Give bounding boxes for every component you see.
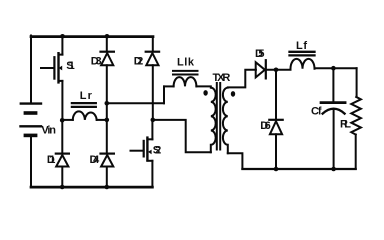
svg-text:Lr: Lr <box>80 90 93 102</box>
svg-text:Cf: Cf <box>311 106 322 118</box>
svg-text:TXR: TXR <box>213 72 231 84</box>
svg-text:D6: D6 <box>260 120 271 132</box>
svg-text:D5: D5 <box>255 48 265 60</box>
svg-text:Vin: Vin <box>41 125 56 137</box>
svg-text:D3: D3 <box>91 55 102 67</box>
svg-text:Lf: Lf <box>296 40 307 52</box>
svg-text:S1: S1 <box>66 60 75 72</box>
svg-text:RL: RL <box>340 119 351 131</box>
svg-text:Llk: Llk <box>177 57 195 69</box>
svg-text:D1: D1 <box>47 154 56 166</box>
svg-text:D4: D4 <box>90 154 101 166</box>
svg-text:D2: D2 <box>134 55 144 67</box>
svg-text:S2: S2 <box>153 145 162 157</box>
